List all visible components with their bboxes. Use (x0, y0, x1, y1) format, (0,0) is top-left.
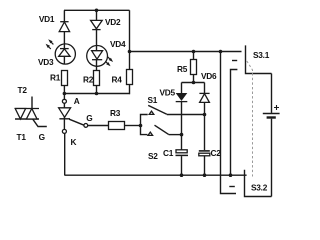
node rail/right column (219, 50, 223, 54)
wire return column S3.1 left contact (231, 70, 238, 176)
wire R3 to switch pole (125, 125, 141, 127)
svg-text:VD5: VD5 (160, 88, 176, 98)
battery plus sign (274, 105, 279, 110)
node VD5/VD6 header (192, 81, 196, 85)
switch S2 blade (155, 125, 169, 134)
wire top rail right (130, 51, 242, 53)
VD3 light arrows (46, 39, 54, 49)
wire top rail left (64, 9, 130, 11)
node rail/R4 column (128, 50, 132, 54)
connector S3.1 (246, 45, 272, 73)
LED VD4 (87, 46, 108, 71)
switch S2 contact (148, 132, 153, 135)
wire S1 to VD6 column (167, 114, 205, 116)
resistor R5 (191, 60, 197, 75)
svg-text:K: K (71, 137, 77, 147)
wire switch pole bracket (141, 115, 148, 135)
resistor R2 (94, 71, 100, 86)
wire R1 to rail (63, 86, 65, 94)
svg-text:R2: R2 (83, 74, 94, 84)
svg-text:VD6: VD6 (201, 71, 217, 81)
svg-text:T1: T1 (17, 132, 27, 142)
wire mid rail A (64, 93, 130, 95)
wire G to R3 (88, 125, 109, 127)
battery GB1 (263, 74, 280, 197)
VD4 light arrows (105, 57, 113, 66)
switch S1 contact (149, 111, 154, 114)
svg-text:R5: R5 (177, 64, 188, 74)
node top rail / VD2 branch (95, 9, 99, 13)
wire R5 bottom lead (193, 75, 195, 83)
minus sign S3.2 (229, 186, 235, 188)
svg-text:VD4: VD4 (110, 39, 126, 49)
diode VD5 (176, 83, 188, 102)
svg-text:VD3: VD3 (38, 57, 54, 67)
wire R4 top lead (129, 10, 131, 69)
triac T1 T2 G (15, 109, 47, 127)
diode VD2 (91, 10, 103, 45)
switch S1 blade (148, 105, 167, 114)
svg-text:VD1: VD1 (39, 14, 55, 24)
svg-text:S1: S1 (148, 95, 158, 105)
wire S2 to VD5 column (169, 134, 182, 136)
mechanical link dashed (247, 61, 253, 177)
resistor R3 (109, 122, 125, 130)
node S2/C1 (180, 133, 184, 137)
wire bottom rail (64, 174, 246, 176)
diode VD6 (199, 83, 209, 103)
node R1/A (63, 92, 67, 96)
svg-text:G: G (86, 113, 92, 123)
svg-text:S3.1: S3.1 (253, 50, 270, 60)
wire VD5/VD6 header (182, 82, 205, 84)
svg-text:VD2: VD2 (105, 17, 121, 27)
resistor R4 (127, 70, 133, 85)
svg-text:S2: S2 (148, 151, 158, 161)
capacitor C2 (199, 151, 210, 175)
diode VD1 (59, 10, 69, 44)
node C2/bottom rail (203, 173, 207, 177)
svg-text:S3.2: S3.2 (251, 183, 268, 193)
svg-text:T2: T2 (18, 85, 28, 95)
node rail/R5 (192, 50, 196, 54)
wire R4 bottom to rail (128, 85, 131, 94)
thyristor VS (59, 103, 84, 129)
minus sign S3.1 (232, 60, 237, 62)
node R2 (95, 92, 99, 96)
svg-text:A: A (74, 96, 80, 106)
svg-text:G: G (39, 132, 45, 142)
wire R5 top lead (193, 52, 195, 60)
wire K down to bottom rail (64, 133, 66, 175)
terminal G (84, 124, 88, 128)
svg-text:C1: C1 (163, 148, 174, 158)
wire R2 to rail (96, 86, 98, 94)
resistor R1 (62, 71, 68, 86)
LED VD3 (55, 44, 75, 64)
capacitor C1 (176, 150, 189, 175)
triac T2 lead (31, 97, 33, 120)
svg-text:C2: C2 (211, 148, 222, 158)
terminal K (62, 129, 66, 133)
wire VD6 to C2 (204, 102, 206, 150)
node C1/bottom rail (180, 173, 184, 177)
svg-text:R1: R1 (50, 72, 61, 82)
node switch pole (139, 124, 143, 128)
node S1/VD6 (203, 113, 207, 117)
svg-text:R4: R4 (112, 74, 123, 84)
wire VD5 to C1 (181, 102, 183, 150)
terminal A (63, 94, 65, 100)
node return/bottom rail (229, 173, 233, 177)
wire right column down (221, 52, 237, 194)
svg-text:R3: R3 (110, 108, 121, 118)
connector S3.2 (245, 170, 272, 197)
